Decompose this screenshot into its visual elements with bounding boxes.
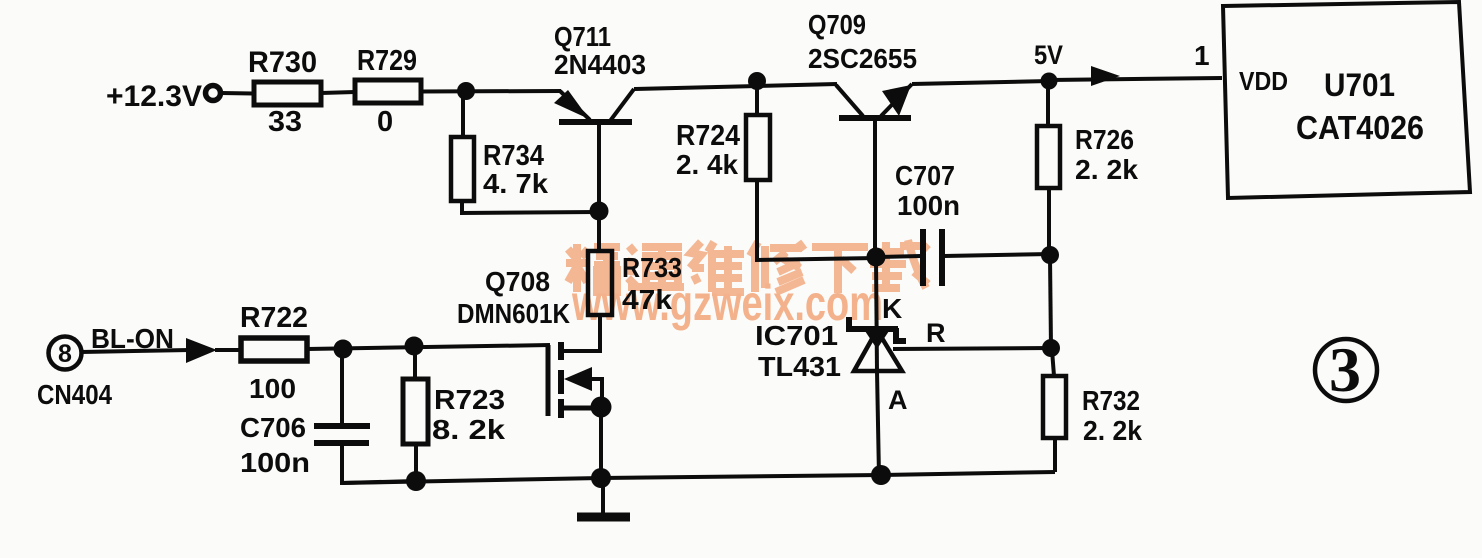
svg-text:8: 8 bbox=[58, 340, 72, 368]
wire TL431 ref to R node bbox=[893, 348, 1051, 349]
node junction at R734 tap bbox=[457, 82, 475, 100]
wire 5V to U701 pin 1 bbox=[1050, 78, 1222, 80]
svg-text:2. 2k: 2. 2k bbox=[1083, 415, 1142, 446]
arrow BL-ON bbox=[186, 338, 217, 363]
wire junction down to R724 bbox=[755, 83, 759, 115]
node junction C707/divider bbox=[1041, 246, 1059, 264]
wire arrow to R722 bbox=[215, 348, 241, 352]
svg-text:33: 33 bbox=[268, 106, 302, 138]
svg-text:R733: R733 bbox=[622, 252, 682, 283]
capacitor C707 left plate bbox=[920, 229, 926, 286]
wire source down to rail bbox=[599, 408, 603, 479]
transistor Q711 collector diagonal bbox=[610, 89, 634, 121]
wire Q709 emitter to 5V node bbox=[912, 81, 1050, 84]
svg-text:K: K bbox=[882, 293, 902, 324]
wire C706 bottom to rail bbox=[342, 446, 416, 483]
node junction source/rail bbox=[591, 468, 611, 488]
node junction R723 tap bbox=[405, 337, 424, 356]
wire terminal to R730 bbox=[221, 91, 253, 96]
wire R node down to R732 bbox=[1052, 350, 1054, 376]
svg-text:DMN601K: DMN601K bbox=[457, 298, 570, 329]
svg-text:100: 100 bbox=[249, 373, 296, 404]
transistor Q709 collector diagonal bbox=[836, 85, 863, 116]
wire CN404 to arrow bbox=[81, 350, 190, 352]
ground rail bbox=[342, 472, 1055, 483]
resistor R722 bbox=[241, 338, 307, 361]
capacitor C707 right plate bbox=[939, 229, 945, 286]
connector CN404 terminal circle bbox=[49, 337, 82, 370]
svg-text:C707: C707 bbox=[895, 160, 955, 191]
ground symbol stem bbox=[601, 483, 605, 515]
svg-text:8. 2k: 8. 2k bbox=[432, 414, 505, 445]
shunt reg IC701 TL431 cathode bar bbox=[846, 317, 906, 341]
node junction R724 tap bbox=[748, 72, 766, 90]
svg-text:C706: C706 bbox=[240, 412, 306, 443]
svg-text:IC701: IC701 bbox=[755, 320, 838, 351]
svg-text:R: R bbox=[926, 318, 946, 348]
transistor Q709 emitter arrow (NPN) bbox=[882, 85, 911, 116]
svg-text:3: 3 bbox=[1329, 334, 1361, 405]
node junction base/R734/R733 bbox=[590, 202, 609, 221]
node junction source bbox=[591, 397, 612, 418]
ground symbol bar bbox=[577, 513, 630, 522]
svg-text:VDD: VDD bbox=[1239, 66, 1288, 96]
wire R726 bottom to C707 node bbox=[1047, 188, 1051, 256]
svg-text:Q708: Q708 bbox=[485, 266, 550, 297]
wire R724 bottom down and right to K node bbox=[757, 180, 877, 260]
svg-text:4. 7k: 4. 7k bbox=[483, 168, 548, 199]
wire R723 bottom to rail bbox=[414, 444, 418, 480]
svg-text:100n: 100n bbox=[897, 190, 960, 221]
wire R729 to Q711 emitter bbox=[421, 89, 561, 94]
wire R734 bottom to node bbox=[462, 201, 598, 213]
terminal +12.3V input bbox=[206, 86, 221, 101]
resistor R733 bbox=[588, 251, 612, 315]
transistor Q709 base bar bbox=[839, 115, 911, 121]
svg-text:CAT4026: CAT4026 bbox=[1296, 109, 1424, 146]
svg-text:Q709: Q709 bbox=[808, 9, 866, 40]
mosfet Q708 gate line bbox=[546, 345, 551, 416]
wire K node to C707 left plate bbox=[877, 256, 921, 257]
wire R732 bottom to ground rail bbox=[1053, 438, 1057, 472]
svg-text:R723: R723 bbox=[434, 384, 505, 415]
wire Q711 base down bbox=[597, 125, 601, 251]
svg-text:U701: U701 bbox=[1324, 67, 1395, 103]
svg-text:A: A bbox=[888, 385, 908, 415]
wire Q711 collector to Q709 collector bbox=[634, 84, 837, 89]
wire divider node down to R node bbox=[1050, 257, 1051, 348]
svg-text:1: 1 bbox=[1194, 40, 1210, 71]
svg-text:2N4403: 2N4403 bbox=[554, 49, 646, 80]
svg-text:R729: R729 bbox=[357, 45, 417, 77]
mosfet Q708 source stub bbox=[562, 406, 596, 411]
svg-text:Q711: Q711 bbox=[554, 21, 611, 52]
transistor Q711 emitter arrow (PNP) bbox=[554, 90, 589, 119]
capacitor C706 top plate bbox=[314, 423, 370, 429]
watermark chinese characters bbox=[566, 240, 928, 293]
mosfet Q708 body arrow stub bbox=[585, 379, 602, 400]
svg-text:TL431: TL431 bbox=[758, 351, 841, 382]
TL431 apex blob bbox=[863, 328, 891, 349]
wire R733 bottom to Q708 drain bbox=[563, 315, 600, 351]
resistor R723 bbox=[403, 379, 428, 444]
wire K node down to TL431 cathode bbox=[876, 259, 877, 372]
resistor R729 bbox=[355, 80, 421, 103]
svg-text:100n: 100n bbox=[240, 447, 310, 478]
node junction K (base/C707/R724/TL431) bbox=[867, 248, 886, 267]
svg-text:+12.3V: +12.3V bbox=[106, 80, 202, 113]
transistor Q711 base bar bbox=[559, 119, 632, 125]
svg-text:R726: R726 bbox=[1075, 124, 1134, 155]
resistor R732 bbox=[1043, 376, 1066, 438]
resistor R726 bbox=[1037, 126, 1060, 188]
resistor R730 bbox=[254, 82, 321, 105]
wire R730 to R729 bbox=[321, 92, 355, 93]
wire R723 node down bbox=[413, 348, 417, 379]
mosfet Q708 channel segments bbox=[558, 342, 564, 418]
svg-text:0: 0 bbox=[377, 106, 393, 138]
svg-text:2SC2655: 2SC2655 bbox=[808, 43, 917, 74]
TL431 triangle bbox=[854, 330, 902, 371]
wire C706 node down bbox=[340, 351, 344, 424]
wire R722 to gate bbox=[307, 345, 550, 349]
svg-text:R730: R730 bbox=[248, 46, 317, 79]
svg-text:R732: R732 bbox=[1082, 385, 1140, 416]
mosfet Q708 drain stub bbox=[562, 330, 600, 351]
resistor R734 bbox=[451, 137, 474, 201]
svg-text:CN404: CN404 bbox=[37, 379, 112, 410]
svg-text:5V: 5V bbox=[1034, 40, 1063, 70]
node junction R (TL431 ref) bbox=[1042, 339, 1060, 357]
transistor Q711 emitter diagonal bbox=[560, 91, 590, 120]
resistor R724 bbox=[746, 115, 770, 180]
IC box U701 bbox=[1223, 2, 1470, 198]
wire junction down to R734 bbox=[461, 93, 465, 137]
wire C707 right plate to divider node bbox=[944, 254, 1051, 256]
node junction C706 tap bbox=[334, 340, 353, 359]
svg-text:2. 2k: 2. 2k bbox=[1075, 154, 1138, 185]
node junction 5V bbox=[1041, 73, 1058, 90]
svg-text:R724: R724 bbox=[676, 120, 740, 152]
node junction TL431 anode/rail bbox=[871, 465, 891, 485]
transistor Q709 emitter diagonal bbox=[881, 84, 912, 116]
page marker circled 3 bbox=[1315, 339, 1377, 401]
arrow toward U701 bbox=[1091, 66, 1120, 86]
mosfet Q708 body arrow bbox=[564, 367, 592, 391]
svg-text:2. 4k: 2. 4k bbox=[676, 149, 738, 180]
wire Q709 base down to K node bbox=[873, 121, 877, 260]
node junction R723/rail bbox=[406, 471, 426, 491]
svg-text:47k: 47k bbox=[622, 284, 672, 315]
capacitor C706 bottom plate bbox=[314, 440, 369, 446]
wire TL431 anode down to rail bbox=[877, 371, 879, 476]
svg-text:R722: R722 bbox=[240, 302, 308, 334]
wire 5V node down to R726 bbox=[1046, 83, 1050, 126]
